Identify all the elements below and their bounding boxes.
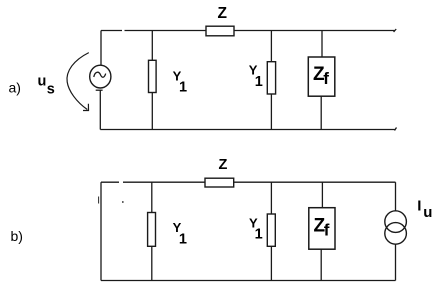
label b) xyxy=(11,228,23,244)
svg-text:I: I xyxy=(417,197,421,214)
value label Y1 (second, circuit b) xyxy=(249,215,263,242)
admittance Y1 (second shunt, circuit b) xyxy=(267,214,275,246)
wire source branch bottom xyxy=(99,90,101,129)
current source I_u (two overlapping circles) xyxy=(385,211,407,244)
wire branch Y1b bottom xyxy=(270,94,272,130)
impedance Zf (circuit a) xyxy=(308,57,335,96)
value label Z (circuit a) xyxy=(218,5,228,22)
wire left side b xyxy=(100,182,102,280)
wire top rail a (right segment) xyxy=(234,29,396,32)
curved arrow (direction of u_s) xyxy=(67,53,89,111)
svg-text:f: f xyxy=(323,69,329,88)
svg-text:1: 1 xyxy=(255,227,263,243)
value label Zf (circuit a) xyxy=(313,64,329,88)
admittance Y1 (second shunt, circuit a) xyxy=(267,62,275,94)
resistor Z (series impedance, circuit b) xyxy=(205,178,234,187)
wire branch Y1c top xyxy=(151,182,153,212)
wire branch Zf bottom xyxy=(320,96,322,129)
wire branch Zf2 top xyxy=(321,182,323,208)
svg-text:1: 1 xyxy=(179,231,187,247)
wire bottom rail a xyxy=(100,128,396,131)
svg-text:u: u xyxy=(423,204,432,221)
admittance Y1 (first shunt, circuit b) xyxy=(148,213,156,247)
voltage source u_s (circle with sine) xyxy=(90,65,111,88)
wire top rail b (right segment) xyxy=(234,181,396,183)
wire source branch top xyxy=(100,31,102,66)
svg-text:u: u xyxy=(38,73,47,89)
wire right side b bottom xyxy=(395,244,397,280)
value label Z (circuit b) xyxy=(219,157,228,173)
impedance Zf (circuit b) xyxy=(309,208,335,250)
wire top rail b (left segment) xyxy=(101,181,205,183)
stray mark on left wire (scan artifact) xyxy=(98,197,100,204)
stray dot (scan artifact) xyxy=(122,201,124,203)
wire branch Y1b top xyxy=(270,31,272,62)
svg-text:b): b) xyxy=(11,228,23,244)
wire branch Zf2 bottom xyxy=(320,249,322,280)
wire top rail a (left segment) xyxy=(101,30,206,32)
value label Zf (circuit b) xyxy=(314,216,330,240)
value label Y1 (first, circuit a) xyxy=(173,69,187,96)
wire bottom rail b xyxy=(101,280,396,282)
wire branch Y1c bottom xyxy=(151,246,153,280)
wire branch Y1a bottom xyxy=(151,93,153,130)
label a) xyxy=(9,80,21,96)
wire branch Y1d bottom xyxy=(270,246,272,280)
admittance Y1 (first shunt, circuit a) xyxy=(149,60,157,92)
value label Y1 (second, circuit a) xyxy=(249,63,263,90)
value label u_s xyxy=(38,73,55,97)
tick under source xyxy=(96,89,103,91)
wire branch Y1a top xyxy=(151,31,153,61)
wire right side b top xyxy=(395,182,397,211)
svg-text:f: f xyxy=(324,221,330,240)
svg-text:1: 1 xyxy=(179,80,187,96)
svg-text:a): a) xyxy=(9,80,21,96)
value label I_u xyxy=(417,197,432,221)
svg-text:1: 1 xyxy=(255,74,263,90)
svg-text:s: s xyxy=(47,81,55,97)
value label Y1 (first, circuit b) xyxy=(173,220,187,247)
wire branch Zf top xyxy=(321,31,323,58)
svg-text:Z: Z xyxy=(218,5,228,22)
resistor Z (series impedance, circuit a) xyxy=(206,26,234,36)
svg-text:Z: Z xyxy=(219,157,228,173)
wire branch Y1d top xyxy=(270,182,272,214)
